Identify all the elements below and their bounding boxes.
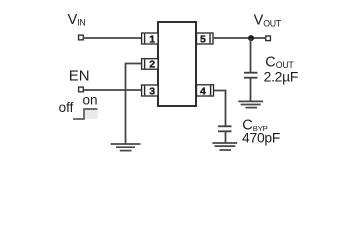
capacitor CBYP [218, 126, 232, 131]
wire pin4 to CBYP [214, 91, 226, 127]
waveform shading [84, 109, 98, 119]
capacitor COUT [244, 73, 258, 78]
wire pin2 to ground [126, 64, 142, 145]
pin 4 [197, 85, 214, 98]
ground IC [111, 144, 141, 151]
svg-text:470pF: 470pF [242, 130, 280, 146]
svg-text:off: off [59, 100, 74, 115]
terminal VOUT [266, 36, 271, 41]
wire COUT to ground [250, 78, 252, 102]
ground COUT [238, 101, 263, 107]
svg-text:5: 5 [200, 33, 206, 45]
wire pin5 to VOUT [213, 37, 265, 39]
junction node VOUT [248, 35, 254, 41]
IC body U1 [158, 22, 196, 106]
wire VOUT node to COUT [250, 38, 252, 73]
wire CBYP to ground [225, 131, 227, 143]
pin 2 [142, 59, 158, 71]
svg-text:EN: EN [69, 67, 90, 84]
wire VIN to pin1 [84, 37, 142, 39]
terminal VIN [79, 35, 84, 40]
waveform on/off step [73, 109, 98, 119]
pin 5 [197, 33, 214, 45]
terminal EN [79, 87, 84, 92]
ground CBYP [212, 143, 237, 150]
svg-text:on: on [83, 93, 98, 108]
pin 1 [142, 33, 158, 45]
svg-text:1: 1 [149, 33, 155, 45]
svg-text:3: 3 [149, 85, 155, 97]
svg-text:4: 4 [200, 85, 206, 97]
pin 3 [142, 85, 158, 97]
svg-text:2.2µF: 2.2µF [264, 68, 299, 84]
svg-text:2: 2 [149, 59, 155, 71]
wire EN to pin3 [84, 89, 142, 91]
